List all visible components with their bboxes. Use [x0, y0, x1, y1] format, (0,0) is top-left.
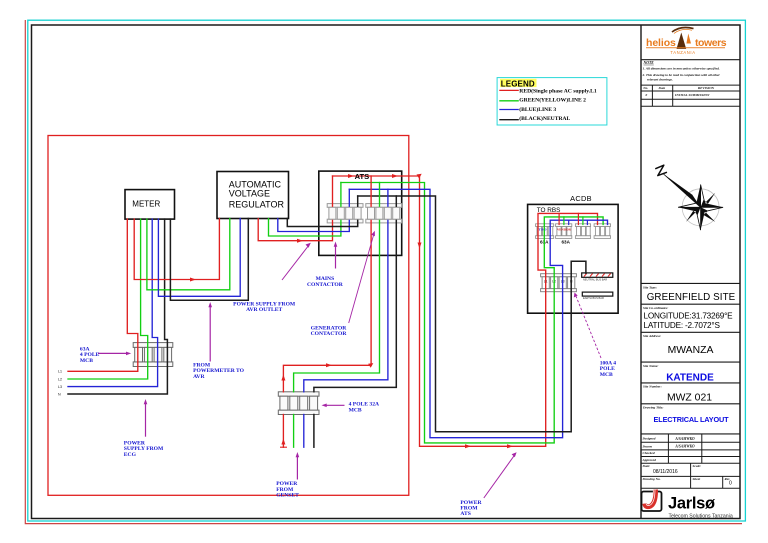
wire red ECG L1 via meter MCB	[68, 219, 138, 371]
wire blue ECG L3	[68, 219, 158, 387]
breaker ACDB G4	[594, 224, 610, 239]
svg-text:METER: METER	[132, 200, 160, 209]
svg-text:GREEN(YELLOW)LINE 2: GREEN(YELLOW)LINE 2	[519, 97, 586, 104]
N letter	[656, 165, 667, 175]
breaker 32A 4 pole (genset MCB)	[278, 392, 319, 415]
Jarlso logo	[642, 490, 733, 520]
wire blue meter to AVR	[158, 219, 240, 297]
breaker 63A no.2 (ACDB G2)	[556, 224, 572, 239]
svg-text:MWANZA: MWANZA	[668, 345, 714, 356]
svg-text:ATS: ATS	[460, 511, 470, 517]
svg-text:Designed: Designed	[642, 437, 656, 441]
svg-text:CONTACTOR: CONTACTOR	[307, 282, 344, 288]
svg-text:REGULATOR: REGULATOR	[229, 199, 285, 209]
svg-text:MWZ 021: MWZ 021	[667, 393, 712, 404]
svg-text:VOLTAGE: VOLTAGE	[229, 189, 270, 199]
breaker 63A no.1 (ACDB G1)	[536, 224, 554, 239]
riser black generator contactor top	[395, 196, 397, 206]
wire blue ATS bus to ACDB	[349, 189, 607, 437]
svg-text:Site Type:: Site Type:	[643, 285, 657, 289]
wire blue genset MCB to generator contactor	[304, 220, 388, 391]
svg-text:N: N	[58, 392, 61, 396]
svg-text:(BLUE)LINE 3: (BLUE)LINE 3	[519, 106, 556, 113]
svg-text:L1: L1	[58, 370, 62, 374]
svg-text:ELECTRICAL LAYOUT: ELECTRICAL LAYOUT	[654, 415, 730, 424]
svg-text:Drawn: Drawn	[642, 444, 653, 448]
svg-text:L3: L3	[58, 385, 62, 389]
svg-text:towers: towers	[695, 37, 727, 49]
svg-text:Site Number:: Site Number:	[643, 385, 662, 389]
svg-text:Site Name:: Site Name:	[643, 364, 659, 368]
svg-text:Drawing Title:: Drawing Title:	[642, 406, 664, 410]
svg-text:Date:: Date:	[642, 464, 651, 468]
box ATS	[319, 171, 402, 255]
svg-text:INITIAL SUBMISSION: INITIAL SUBMISSION	[674, 93, 710, 97]
svg-text:63A: 63A	[562, 240, 571, 245]
contactor generator (ATS right group)	[366, 204, 402, 223]
svg-text:GREENFIELD SITE: GREENFIELD SITE	[647, 292, 736, 303]
svg-text:Checked: Checked	[643, 451, 655, 455]
svg-text:LONGITUDE:31.73269°E: LONGITUDE:31.73269°E	[644, 312, 734, 321]
svg-text:A/SAMWKO: A/SAMWKO	[674, 437, 695, 441]
wire blue AVR to mains contactor	[278, 219, 350, 232]
svg-text:Telecom Solutions Tanzania: Telecom Solutions Tanzania	[669, 514, 733, 520]
wire black genset MCB to generator contactor	[314, 220, 396, 391]
wire black meter to AVR	[170, 219, 248, 301]
breaker 100A 4 pole (ACDB lower)	[541, 274, 577, 292]
stub red genset input	[282, 415, 284, 448]
busbar earth	[582, 292, 613, 296]
site info sections	[641, 283, 740, 434]
revision table	[641, 85, 740, 106]
drop green ACDB G2	[563, 217, 565, 225]
svg-text:relevant drawings.: relevant drawings.	[647, 77, 673, 81]
svg-text:(BLACK)NEUTRAL: (BLACK)NEUTRAL	[519, 115, 570, 122]
svg-text:REVISION: REVISION	[698, 86, 715, 90]
notes section divider	[641, 59, 740, 61]
drop green ACDB G3	[582, 217, 584, 225]
svg-text:MCB: MCB	[600, 372, 613, 378]
box AVR	[217, 172, 289, 219]
wire green ATS bus to ACDB	[341, 183, 603, 443]
svg-text:GENSET: GENSET	[276, 493, 299, 499]
stub blue genset input	[303, 415, 305, 448]
drop red ACDB G3	[577, 213, 579, 224]
wire black ECG N	[68, 219, 167, 394]
note text	[642, 61, 721, 82]
svg-text:ACDB: ACDB	[570, 194, 592, 203]
riser green mains contactor top	[340, 183, 342, 207]
svg-text:Jarlsø: Jarlsø	[668, 495, 715, 513]
svg-text:A/SAMWKO: A/SAMWKO	[674, 445, 695, 449]
breaker ACDB G3	[575, 224, 590, 239]
svg-text:No.: No.	[642, 86, 648, 90]
riser red mains contactor top	[332, 176, 334, 206]
main points N E S W	[696, 185, 700, 208]
svg-text:Approved: Approved	[642, 458, 657, 462]
stub green genset input	[293, 415, 295, 448]
svg-text:08/11/2016: 08/11/2016	[653, 469, 678, 475]
node labels L1 L2 L3 N (ECG stubs)	[58, 370, 62, 397]
riser blue generator contactor top	[387, 189, 389, 206]
svg-text:2. This drawing to be read in: 2. This drawing to be read in conjunctio…	[642, 73, 721, 77]
stub black genset input	[313, 415, 315, 448]
svg-text:EARTH BUS BAR: EARTH BUS BAR	[583, 296, 604, 300]
svg-text:TBD: TBD	[539, 228, 548, 232]
riser black mains contactor top	[357, 196, 359, 206]
helios towers logo	[646, 27, 727, 54]
wire black ATS bus to ACDB neutral bar	[358, 196, 586, 432]
red arrows	[190, 174, 513, 449]
svg-text:VENDOR: VENDOR	[557, 228, 572, 232]
svg-text:Site Co-ordinates:: Site Co-ordinates:	[643, 306, 668, 310]
svg-text:Site Address:: Site Address:	[643, 334, 661, 338]
svg-text:ECG: ECG	[124, 452, 137, 458]
svg-text:0: 0	[646, 93, 648, 97]
svg-text:TANZANIA: TANZANIA	[670, 50, 695, 55]
wire green AVR to mains contactor	[269, 219, 341, 237]
svg-text:ATS: ATS	[355, 172, 370, 181]
svg-text:Sheet: Sheet	[693, 477, 702, 481]
svg-text:0: 0	[729, 481, 732, 487]
svg-text:NEUTRAL BUS BAR: NEUTRAL BUS BAR	[583, 278, 607, 282]
drop blue ACDB G3	[586, 220, 588, 224]
svg-text:KATENDE: KATENDE	[666, 373, 714, 384]
svg-text:RED(Single phase AC supply.L1: RED(Single phase AC supply.L1	[519, 87, 597, 94]
svg-text:MCB: MCB	[80, 358, 93, 364]
riser red generator contactor top	[370, 176, 372, 206]
drop red ACDB G2	[558, 213, 560, 224]
svg-text:AVR: AVR	[193, 374, 205, 380]
designed/drawn table	[641, 434, 740, 488]
contactor mains (ATS left group)	[327, 204, 363, 223]
long NW arm	[664, 174, 701, 207]
svg-text:LATITUDE: -2.7072°S: LATITUDE: -2.7072°S	[644, 321, 721, 330]
wire green genset MCB to generator contactor	[294, 220, 380, 391]
drop blue ACDB G2	[568, 220, 570, 224]
svg-text:helios: helios	[646, 37, 676, 49]
diagram boundary red rectangle	[48, 136, 409, 496]
title block left edge	[640, 25, 642, 519]
svg-text:L2: L2	[58, 377, 62, 381]
svg-text:NOTE: NOTE	[643, 61, 655, 65]
riser blue mains contactor top	[348, 189, 350, 206]
box METER	[125, 190, 175, 220]
box ACDB	[528, 204, 619, 313]
wire red ATS bus to ACDB	[333, 176, 598, 446]
riser green generator contactor top	[379, 183, 381, 207]
svg-text:1. All dimensions are in mm u: 1. All dimensions are in mm unless other…	[643, 67, 720, 71]
wire red AVR to mains contactor	[258, 219, 332, 241]
svg-text:Scale:: Scale:	[693, 464, 702, 468]
compass rose	[656, 165, 723, 230]
wire black AVR to mains contactor	[287, 219, 357, 227]
diagonal points	[701, 193, 716, 208]
busbar neutral	[582, 273, 613, 277]
wire red meter to AVR	[134, 219, 219, 280]
svg-text:Drawing No.: Drawing No.	[642, 477, 661, 481]
svg-text:Date: Date	[658, 86, 666, 90]
svg-text:CONTACTOR: CONTACTOR	[311, 331, 348, 337]
breaker 63A 4 pole (meter MCB)	[133, 343, 173, 367]
wire green meter to AVR	[147, 219, 230, 290]
svg-text:LEGEND: LEGEND	[501, 79, 535, 88]
wire green ECG L2	[68, 219, 148, 379]
svg-text:AVR OUTLET: AVR OUTLET	[246, 307, 282, 313]
wire red genset MCB to generator contactor	[283, 220, 371, 391]
svg-text:MCB: MCB	[349, 407, 362, 413]
